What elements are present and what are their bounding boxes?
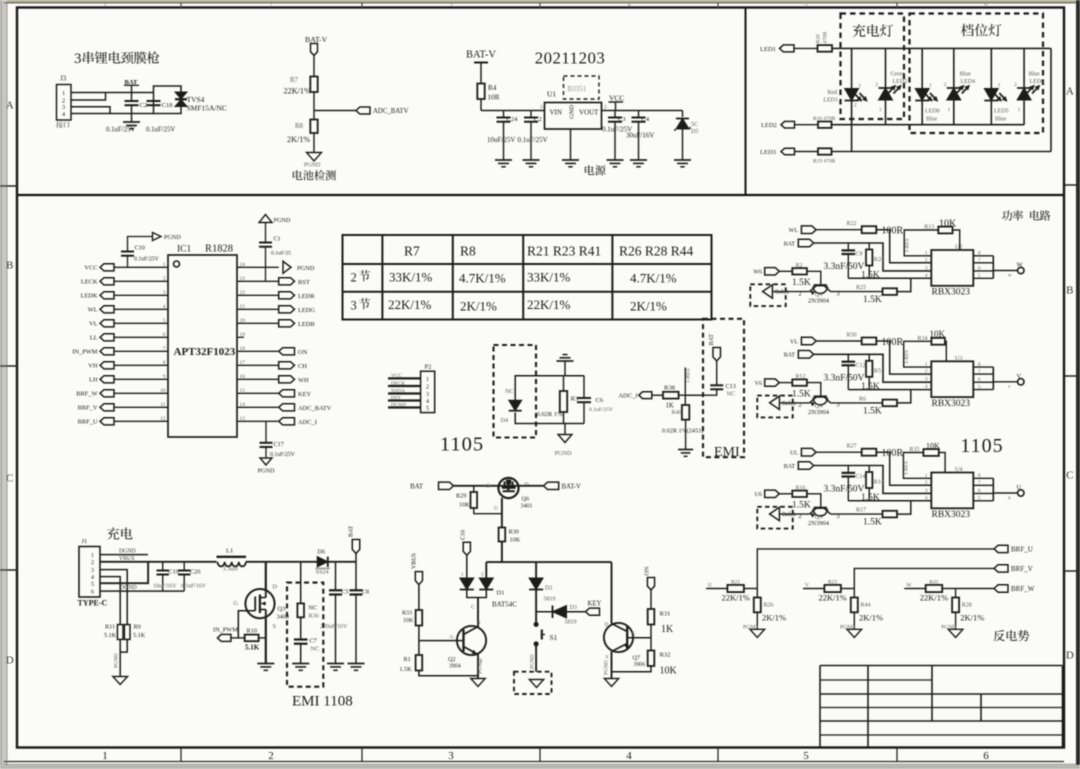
svg-text:PGND: PGND [274,217,291,224]
svg-text:1.5K: 1.5K [863,518,882,528]
ground under C24 [495,159,512,161]
bottom gray strip [0,765,1080,769]
svg-text:IN_PWM: IN_PWM [213,627,238,634]
net flag U6 base input [765,490,780,497]
svg-text:10K: 10K [930,329,946,339]
chip right pins bus [973,477,993,479]
svg-text:D: D [477,621,481,627]
LED green LED2b [879,88,893,100]
svg-text:R35: R35 [909,447,919,453]
outer frame line top [4,2,1076,4]
svg-text:1.5K: 1.5K [792,501,811,511]
wire triangle to emitter [779,513,793,515]
resistor R50 100R [862,338,877,345]
outer frame line bottom [4,763,1076,765]
svg-text:WH: WH [298,377,309,384]
svg-text:18: 18 [240,346,246,352]
terminal circle U [1018,490,1024,496]
svg-text:2: 2 [91,560,94,566]
svg-text:DGND: DGND [119,549,136,555]
svg-text:BAT: BAT [784,464,796,470]
svg-text:0.1uF/25: 0.1uF/25 [271,251,291,257]
svg-text:R3: R3 [571,396,579,403]
svg-text:2N3904: 2N3904 [808,409,830,416]
svg-text:R17: R17 [856,508,866,514]
wire R11 R9 to ground [120,639,127,652]
svg-text:LED2: LED2 [761,122,777,129]
svg-text:G: G [632,631,636,637]
svg-text:R5: R5 [874,367,882,374]
svg-text:C19: C19 [169,569,179,576]
PGND back EMF BRF_V [847,629,862,637]
wire rail to D1b [485,562,487,578]
svg-text:Q6: Q6 [522,496,530,503]
svg-text:C1: C1 [274,236,281,243]
ground under C2b [523,159,540,161]
svg-text:R19 470R: R19 470R [813,159,836,165]
svg-text:5: 5 [91,582,94,588]
resistor R41 22K [926,585,943,592]
wire pin 9 [114,378,168,380]
resistor R12 1.5K base [792,379,807,385]
PGND back EMF BRF_U [750,629,765,637]
svg-text:VCC: VCC [84,265,97,272]
svg-text:22K/1%: 22K/1% [284,87,311,96]
resistor R1 [416,655,423,671]
label 电池检测 [293,170,336,180]
svg-text:PGND: PGND [304,163,321,169]
svg-text:NSDA: NSDA [391,388,405,394]
wire pin 3 [114,294,168,296]
svg-text:PGND: PGND [258,468,275,475]
svg-text:IN_PWM: IN_PWM [72,349,98,356]
svg-text:ON: ON [644,566,651,575]
svg-text:C16: C16 [461,530,467,540]
svg-text:0.1uF/25V: 0.1uF/25V [134,257,160,263]
LED return wire right [1050,48,1052,151]
svg-text:1: 1 [879,107,882,113]
wire R36 to C7 [300,617,302,639]
wire J3 pin4 rail [71,113,154,115]
svg-text:100R: 100R [882,448,904,459]
svg-text:R23: R23 [828,579,837,585]
label 反电势 [993,630,1029,641]
svg-text:22K/1%: 22K/1% [920,593,948,603]
svg-text:PGND: PGND [941,624,956,630]
svg-text:G: G [234,600,239,607]
wire R4 to VIN rail [480,99,482,111]
P2 pin 3 wire NSDA [388,392,421,394]
svg-text:R26 R28 R44: R26 R28 R44 [619,244,694,259]
ground PGND battery divider [307,153,322,162]
wire LED2 rail [832,124,1025,126]
svg-text:R21 R23 R41: R21 R23 R41 [527,244,601,259]
net flag BRF_U [994,545,1008,552]
svg-text:VIN: VIN [550,109,562,117]
svg-text:BRF_U: BRF_U [1011,546,1033,554]
svg-text:Blue: Blue [960,72,972,78]
svg-text:6: 6 [985,2,988,8]
svg-text:BAT54C: BAT54C [492,601,517,609]
svg-text:2: 2 [426,385,429,391]
PGND under R11 [113,677,128,685]
wire pin 21 [237,308,279,310]
svg-text:WL: WL [789,228,799,234]
net flag KEY (MCU pin 15) [279,390,295,397]
svg-text:10: 10 [160,388,166,394]
resistor R11 [117,625,123,640]
svg-text:C5: C5 [342,590,349,596]
wire pin 14 [237,406,279,408]
svg-text:1-RES: 1-RES [904,461,910,475]
LED green column wire [885,48,887,88]
capacitor C7 NC [294,638,308,640]
wire R50 to chip pin2 [876,341,931,374]
svg-text:Balun: Balun [782,512,796,518]
svg-text:BRF_W: BRF_W [1011,585,1035,593]
resistor R30 [499,528,506,542]
MOSFET Q3 [245,589,274,618]
wire collector to R17 pin 3 [831,513,883,515]
wire pin 1 [114,266,168,268]
wire U1 GND [570,129,572,160]
MCU pin 19 stub [237,336,244,338]
svg-text:LED4: LED4 [961,79,976,85]
svg-text:Balun: Balun [775,290,789,296]
svg-text:R13: R13 [924,225,934,231]
svg-text:C6: C6 [596,397,604,404]
chip right pins bus [973,255,993,257]
svg-text:Balun: Balun [782,401,796,407]
net flag IN_PWM (MCU pin 7) [100,348,114,355]
svg-text:C13: C13 [726,383,736,390]
svg-text:C: C [471,605,475,611]
transistor Q7 3906 [604,623,633,652]
ground under U1 [562,159,579,161]
svg-text:22K/1%: 22K/1% [722,593,750,603]
resistor R14 1.5K [868,466,870,473]
transistor Q4 2N3904 [814,395,827,397]
driver chip U2 RBX3023 [931,250,973,286]
svg-text:C9: C9 [856,252,863,258]
svg-text:5.1K: 5.1K [104,632,117,639]
wire LED1 rail [832,47,1051,49]
svg-text:3: 3 [426,392,429,398]
label 充电灯 [853,24,893,37]
wire VIN rail [481,110,545,112]
svg-text:16: 16 [240,374,246,380]
resistor R10 [245,635,259,642]
wire J3 pin3 stub [71,107,110,114]
svg-text:V: V [805,582,809,588]
svg-text:R1828: R1828 [205,244,233,255]
svg-text:DGND: DGND [391,402,406,408]
svg-text:PGND: PGND [840,624,855,630]
TVS diode TVS4 [175,92,187,99]
wire triangle to emitter [772,291,786,293]
svg-text:3.3nF/50V: 3.3nF/50V [824,373,865,383]
capacitor C2b [530,111,532,118]
ground under C5 [327,663,344,665]
svg-text:33K/1%: 33K/1% [389,270,433,285]
svg-text:C12: C12 [856,363,866,369]
switch S1 [534,623,538,627]
svg-text:2: 2 [854,103,857,109]
wire V6 to R12 [779,382,792,384]
resistor R36 NC [300,562,302,604]
wire pin 8 [114,364,168,366]
zener diode D5 [682,111,684,118]
svg-text:0.1uF/25V: 0.1uF/25V [589,407,613,413]
svg-text:BAT: BAT [784,353,796,359]
LED blue LED4 [947,88,961,100]
svg-text:17: 17 [240,360,246,366]
svg-text:LL: LL [90,335,98,342]
svg-text:5819: 5819 [565,620,577,626]
LED pair1 left column [921,48,923,88]
ground under C4 [630,159,647,161]
svg-text:U3: U3 [955,356,962,362]
svg-text:10K: 10K [510,537,521,544]
svg-text:BAT-V: BAT-V [305,35,328,44]
svg-text:D: D [1066,650,1074,662]
svg-text:U4: U4 [955,467,962,473]
wire R40 to ground [685,420,687,450]
capacitor C13 [710,384,723,386]
svg-text:P2: P2 [425,364,432,371]
net flag WL [801,226,816,234]
PGND under S1 [529,680,543,688]
svg-text:470R: 470R [823,31,829,43]
wire R29 to gate [474,508,502,514]
LED red LED1b [845,89,859,101]
svg-text:2K/1%: 2K/1% [460,299,497,314]
svg-text:1.5K: 1.5K [792,389,811,399]
resistor R44 2K [853,589,855,598]
svg-text:KEY: KEY [298,391,312,398]
svg-text:SS24: SS24 [316,569,329,576]
connector P2 [421,371,435,412]
svg-text:W: W [906,582,912,588]
ground under C3 [607,159,624,161]
wire triangle to emitter [779,402,793,404]
resistor R5 1.5K [868,354,870,361]
svg-text:R16: R16 [796,485,806,491]
wire BAT-V to R7 [313,56,315,77]
svg-text:3401: 3401 [521,504,533,510]
resistor R35 10K feedback [903,453,931,479]
inductor L1 [217,556,247,558]
svg-text:3.3nF/50V: 3.3nF/50V [824,485,865,495]
wire R32 to PGND join [612,666,652,672]
transistor Q1 2N3904 [814,284,827,286]
P2 pin 5 wire DGND [388,406,421,408]
svg-text:NC: NC [727,391,736,398]
svg-text:R10: R10 [247,628,258,635]
svg-text:WL: WL [88,307,98,314]
svg-text:5: 5 [426,406,429,412]
wire J1 pin2 VBUS rail [100,561,217,563]
wire VOUT rail [602,110,683,112]
svg-text:13: 13 [240,416,246,422]
svg-text:10K: 10K [939,219,957,230]
svg-text:R30: R30 [509,529,519,536]
wire phase stub [803,588,824,590]
svg-text:R9: R9 [134,624,141,631]
wire LED2 to resistor [795,124,819,126]
svg-text:2K/1%: 2K/1% [859,613,883,623]
wire C17 to PGND [265,447,267,458]
wire WL to R22 [816,229,862,231]
PGND arrow left [153,233,162,241]
wire pin 13 [237,420,279,422]
net flag BRF_U (MCU pin 12) [100,418,114,425]
svg-text:VCC: VCC [609,94,624,103]
svg-text:U6: U6 [755,492,762,498]
diode D2 5819 [535,562,537,578]
svg-text:R34: R34 [917,336,927,342]
triangle symbol in dashed box [770,507,780,520]
capacitor C8 [355,562,357,591]
svg-text:1: 1 [163,262,166,268]
svg-text:V: V [1017,373,1022,380]
svg-text:1-RES: 1-RES [686,368,692,383]
wire pin 5 [114,322,168,324]
svg-text:VL: VL [790,339,798,345]
resistor R26 2K [756,589,758,598]
svg-text:R41: R41 [929,579,938,585]
svg-text:DGND: DGND [120,585,137,591]
resistor R19 [818,148,832,154]
net flag BRF_V (MCU pin 11) [100,404,114,411]
wire VCC stub [615,102,617,111]
svg-text:BRF_V: BRF_V [1011,565,1033,573]
EMI dashed box [703,319,744,457]
capacitor C5 [335,562,337,591]
net flag CH (MCU pin 17) [279,362,295,369]
svg-text:22: 22 [240,290,246,296]
wire pin 23 [237,280,279,282]
wire pin 6 [114,336,168,338]
net flag RST (MCU pin 23) [279,278,295,285]
svg-text:R7: R7 [404,244,420,259]
wire pin 24 [237,266,279,268]
svg-text:LH: LH [89,377,98,384]
wire ON to R31 [650,590,652,609]
svg-text:R24: R24 [874,256,886,263]
wire R1 to emitter [419,671,478,676]
net flag VH (MCU pin 8) [100,362,114,369]
wire rail continues to BAT [329,561,357,563]
wire D1 common cathode [467,590,487,598]
wire rail down to R6 [897,390,911,403]
wire pin 20 [237,322,279,324]
right dark strip [1076,0,1080,769]
wire C7 to ground [300,644,302,664]
svg-text:UL: UL [790,451,798,457]
net flag VCC (MCU pin 1) [100,264,114,271]
wire R7 to node [313,92,315,120]
net flag LEDK (MCU pin 3) [100,292,114,299]
svg-text:30uF/16V: 30uF/16V [626,132,654,140]
svg-text:2K/1%: 2K/1% [287,135,310,144]
svg-text:3: 3 [925,265,928,271]
svg-text:3: 3 [836,290,839,297]
svg-text:10uF/25V: 10uF/25V [487,136,515,144]
svg-text:33K/1%: 33K/1% [527,270,571,285]
svg-text:Q2: Q2 [448,656,456,663]
svg-text:LED2: LED2 [893,79,908,85]
svg-text:C17: C17 [274,441,284,448]
svg-text:20211203: 20211203 [535,49,606,68]
net flag BAT-V switch [544,482,559,489]
svg-text:R29: R29 [456,493,466,500]
capacitor C24 [503,111,505,118]
svg-text:VOUT: VOUT [579,109,599,117]
wire LED3 rail [832,151,1052,153]
wire Q6 gate down [501,498,503,528]
capacitor C14 3.3nF [847,466,849,473]
bottom number row [4,761,1065,763]
LED pair2 left column [990,48,992,88]
wire bottom rail to pin4 [848,500,931,502]
svg-text:w: w [1008,274,1012,279]
wire R2 to base [807,271,821,285]
svg-text:1-RES: 1-RES [904,350,910,364]
svg-text:D1: D1 [497,590,505,597]
diode D3 5819 [536,611,552,613]
wire collector to R6 pin 3 [831,402,883,404]
label 功率电路 [1002,210,1050,220]
capacitor C12 3.3nF [847,354,849,361]
net flag VL [801,337,816,345]
wire pin 10 [114,392,168,394]
svg-text:20: 20 [240,318,246,324]
top section vertical divider [745,8,747,196]
svg-text:5C: 5C [691,122,698,128]
charging light dashed box 充电灯 [841,14,905,120]
LED pair1 right column [953,48,955,88]
resistor R21 22K [727,585,744,592]
label 档位灯 [961,24,1002,37]
svg-text:PGND: PGND [530,654,536,669]
net flag ADC_BATV (MCU pin 14) [279,404,295,411]
svg-text:3: 3 [540,105,543,111]
terminal circle W [1018,267,1024,273]
PGND symbol above C1 [259,215,272,223]
svg-text:10K: 10K [660,666,678,677]
chassis ground above D4 box [564,361,566,376]
net flag V6 base input [765,379,780,386]
capacitor C18 [147,100,161,102]
wire W6 to R2 [779,270,792,272]
wire D1 to Q2 collector [477,598,479,628]
capacitor C4 [638,111,640,118]
LED blue LED6 [1017,88,1031,100]
capacitor C3 [614,111,616,118]
svg-text:1K: 1K [666,403,674,410]
svg-text:21: 21 [240,304,246,310]
wire pin 2 [114,280,168,282]
svg-text:3: 3 [163,290,166,296]
svg-text:R16 470R: R16 470R [813,116,836,122]
svg-text:S: S [273,623,277,630]
svg-text:L1: L1 [226,548,233,555]
ground under C7 [292,663,309,665]
svg-text:R6: R6 [859,396,866,402]
wire phase stub [706,588,727,590]
wire Q7 emitter to PGND [611,652,613,679]
